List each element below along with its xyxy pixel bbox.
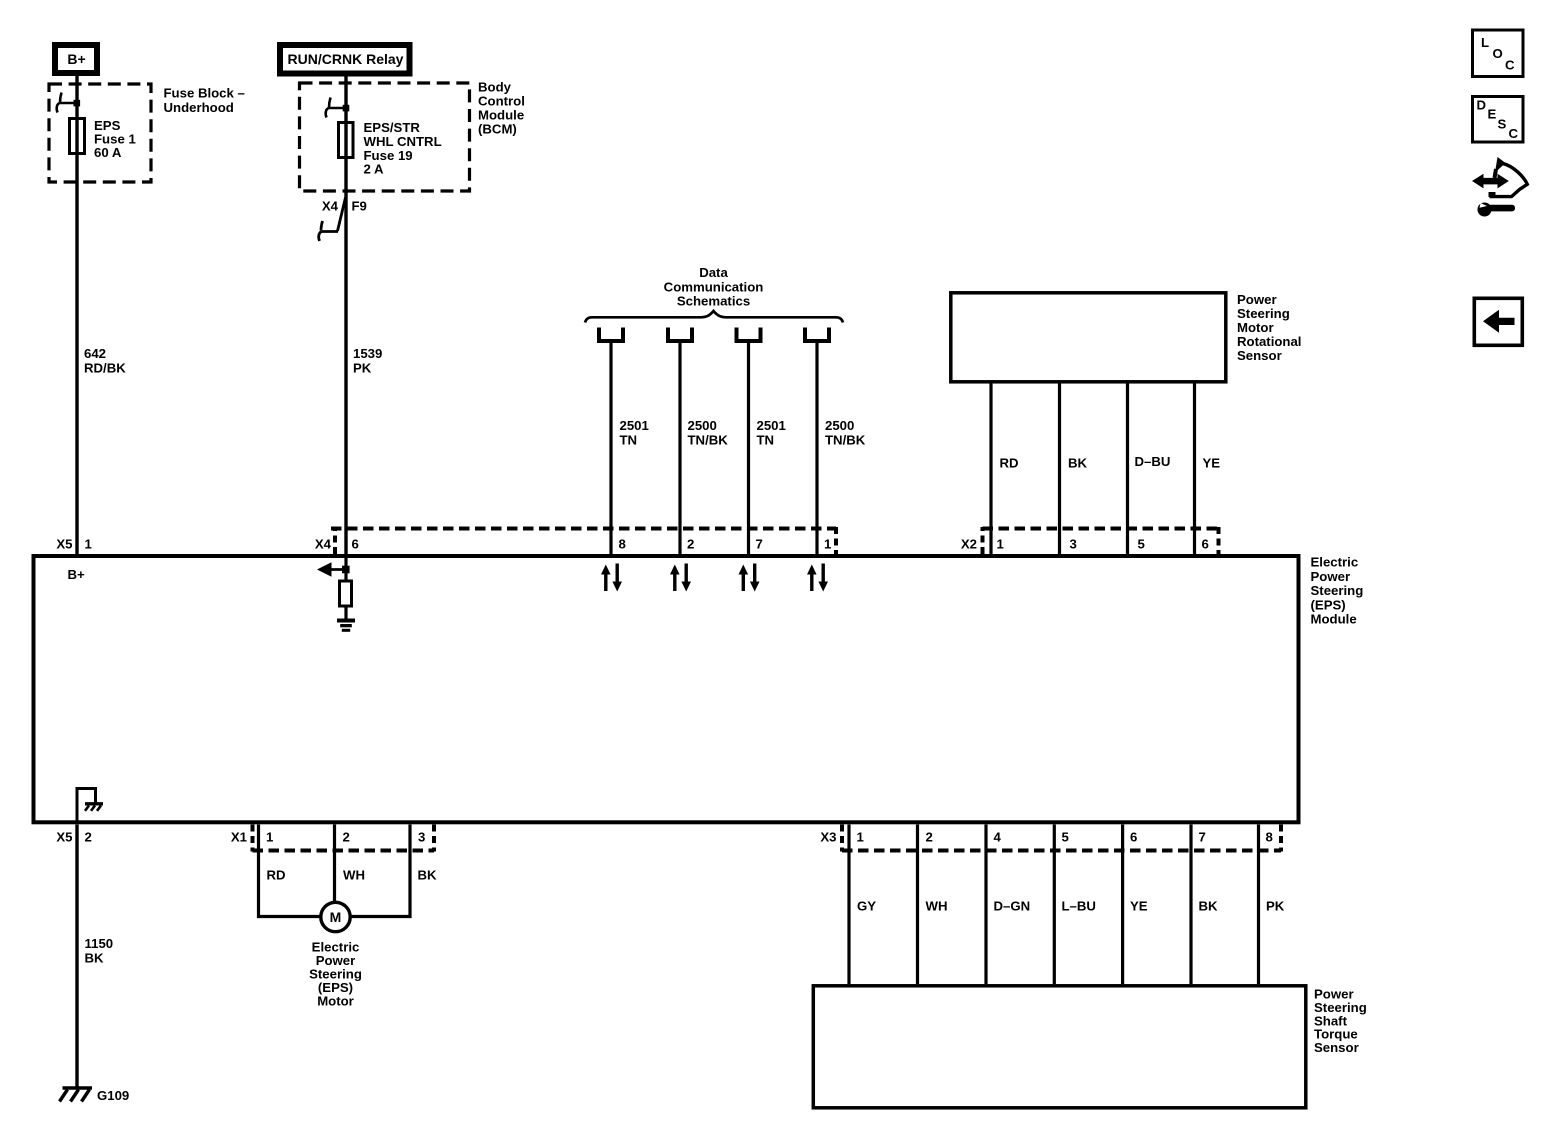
svg-text:BK: BK bbox=[85, 950, 105, 965]
svg-text:Sensor: Sensor bbox=[1314, 1040, 1359, 1055]
svg-text:BK: BK bbox=[418, 868, 438, 883]
wire resistor to ground bbox=[344, 606, 347, 619]
earth ground symbol inside module bbox=[337, 619, 355, 632]
fuse F1 EPS 60 A bbox=[70, 119, 85, 154]
connector X1 dashed bracket under EPS module bbox=[253, 825, 435, 852]
svg-text:1: 1 bbox=[824, 537, 831, 552]
connector label X4 / F9 bbox=[322, 199, 367, 214]
wire D-BU sensor to X2-5 bbox=[1126, 384, 1129, 555]
wire label 2501 TN bbox=[620, 418, 649, 447]
svg-text:(EPS): (EPS) bbox=[1311, 597, 1346, 612]
svg-text:Fuse Block –: Fuse Block – bbox=[164, 86, 245, 101]
icon DESC button bbox=[1473, 97, 1524, 143]
bus arrows below pin 2 bbox=[670, 564, 691, 592]
junction dot bbox=[342, 566, 350, 574]
chassis ground symbol inside module bbox=[85, 804, 103, 811]
svg-text:2 A: 2 A bbox=[364, 162, 385, 177]
icon quick-check (double arrow, outline arrow, screwdriver) bbox=[1472, 157, 1527, 217]
wire 642 RD/BK from B+ to EPS module pin X5-1 bbox=[75, 76, 78, 554]
connector X2 dashed bracket on EPS module bbox=[983, 527, 1219, 554]
svg-text:1: 1 bbox=[266, 830, 273, 845]
wire 1539 PK from RUN/CRNK Relay to EPS module pin X4-6 bbox=[344, 76, 347, 554]
svg-text:PK: PK bbox=[353, 361, 372, 376]
svg-text:O: O bbox=[1493, 46, 1503, 61]
svg-text:S: S bbox=[1498, 117, 1507, 132]
svg-text:2501: 2501 bbox=[620, 418, 649, 433]
label Data Communication Schematics bbox=[664, 265, 764, 309]
icon back arrow button bbox=[1474, 298, 1522, 345]
svg-text:C: C bbox=[1505, 58, 1515, 73]
svg-text:4: 4 bbox=[994, 830, 1002, 845]
power node B+ bbox=[55, 45, 97, 73]
svg-text:Power: Power bbox=[1311, 569, 1351, 584]
fuse F1 value label bbox=[94, 118, 136, 160]
wire label 1539 PK bbox=[353, 346, 382, 376]
svg-text:6: 6 bbox=[1202, 537, 1209, 552]
svg-text:X3: X3 bbox=[820, 830, 836, 845]
svg-text:TN: TN bbox=[757, 432, 775, 447]
wire 2501 TN to pin X4-7 bbox=[747, 343, 750, 554]
junction dot at fuse block terminal bbox=[74, 100, 81, 107]
fuse F19 EPS/STR WHL CNTRL 2 A bbox=[339, 123, 354, 158]
label Power Steering Motor Rotational Sensor bbox=[1237, 292, 1301, 363]
wire 1150 BK from pin X5-2 to G109 bbox=[75, 825, 78, 1087]
svg-text:RUN/CRNK Relay: RUN/CRNK Relay bbox=[288, 51, 404, 67]
svg-text:Steering: Steering bbox=[1237, 306, 1290, 321]
svg-text:Module: Module bbox=[478, 108, 524, 123]
svg-text:5: 5 bbox=[1138, 537, 1145, 552]
icon LOC button bbox=[1473, 30, 1524, 77]
svg-text:Underhood: Underhood bbox=[164, 100, 234, 115]
label Electric Power Steering (EPS) Motor bbox=[309, 940, 362, 1009]
wire 2501 TN to pin X4-8 bbox=[609, 343, 612, 554]
svg-text:RD: RD bbox=[1000, 456, 1019, 471]
connector X4 dashed bracket on EPS module bbox=[331, 527, 836, 554]
svg-text:D–GN: D–GN bbox=[994, 899, 1031, 914]
wire YE sensor to X2-6 bbox=[1193, 384, 1196, 555]
junction dot at BCM terminal bbox=[343, 105, 350, 112]
svg-text:F9: F9 bbox=[352, 199, 367, 214]
resistor (coil suppression) inside module bbox=[340, 581, 352, 606]
svg-text:Sensor: Sensor bbox=[1237, 348, 1282, 363]
label Body Control Module (BCM) bbox=[478, 80, 525, 137]
svg-text:Power: Power bbox=[1237, 292, 1277, 307]
svg-text:Module: Module bbox=[1311, 612, 1357, 627]
svg-text:WH: WH bbox=[926, 899, 948, 914]
svg-text:Body: Body bbox=[478, 80, 512, 95]
wire RD sensor to X2-1 bbox=[989, 384, 992, 555]
svg-text:642: 642 bbox=[84, 346, 106, 361]
sensor box Power Steering Shaft Torque Sensor bbox=[813, 986, 1306, 1108]
svg-text:TN/BK: TN/BK bbox=[688, 432, 729, 447]
svg-text:RD/BK: RD/BK bbox=[84, 361, 126, 376]
svg-text:1150: 1150 bbox=[85, 936, 114, 951]
svg-text:GY: GY bbox=[857, 899, 876, 914]
module box Electric Power Steering (EPS) Module bbox=[34, 556, 1299, 822]
svg-text:WHL CNTRL: WHL CNTRL bbox=[364, 134, 442, 149]
wire BK from X1-3 to motor bbox=[350, 825, 411, 917]
svg-text:D: D bbox=[1477, 98, 1487, 113]
svg-text:M: M bbox=[330, 909, 342, 925]
wire WH X3-2 to torque sensor bbox=[916, 825, 919, 985]
bus arrows below pin 1 bbox=[807, 564, 828, 592]
svg-text:2500: 2500 bbox=[825, 418, 854, 433]
svg-text:X5: X5 bbox=[56, 830, 72, 845]
svg-text:1: 1 bbox=[997, 537, 1004, 552]
wire YE X3-6 to torque sensor bbox=[1121, 825, 1124, 985]
internal wire from pin X4-6 to resistor bbox=[344, 554, 347, 581]
wire PK X3-8 to torque sensor bbox=[1257, 825, 1260, 985]
off-page connector for wire 2500 TN/BK pin 2 bbox=[668, 328, 692, 342]
wire BK sensor to X2-3 bbox=[1058, 384, 1061, 555]
wire L-BU X3-5 to torque sensor bbox=[1053, 825, 1056, 985]
ground G109 bbox=[60, 1088, 93, 1102]
svg-text:Motor: Motor bbox=[317, 994, 354, 1009]
wire label 1150 BK bbox=[85, 936, 114, 965]
wire D-GN X3-4 to torque sensor bbox=[984, 825, 987, 985]
svg-text:RD: RD bbox=[267, 868, 286, 883]
wire label 2500 TN/BK bbox=[825, 418, 866, 447]
wire 2500 TN/BK to pin X4-1 bbox=[815, 343, 818, 554]
wire RD from X1-1 to motor bbox=[259, 825, 322, 917]
bus arrows below pin 7 bbox=[739, 564, 760, 592]
connector X3 dashed bracket under EPS module bbox=[842, 825, 1281, 852]
wire 2500 TN/BK to pin X4-2 bbox=[678, 343, 681, 554]
svg-text:Control: Control bbox=[478, 94, 525, 109]
bus arrows below pin 8 bbox=[601, 564, 622, 592]
wire label 642 RD/BK bbox=[84, 346, 126, 376]
in-line connector jog and terminal hook below X4/F9 bbox=[319, 198, 346, 242]
svg-text:B+: B+ bbox=[67, 51, 85, 67]
svg-text:2: 2 bbox=[687, 537, 694, 552]
svg-text:PK: PK bbox=[1266, 899, 1285, 914]
svg-text:60 A: 60 A bbox=[94, 145, 122, 160]
sensor box Power Steering Motor Rotational Sensor bbox=[951, 293, 1226, 382]
BCM dashed outline bbox=[300, 83, 470, 191]
wire GY X3-1 to torque sensor bbox=[847, 825, 850, 985]
svg-text:BK: BK bbox=[1068, 456, 1088, 471]
svg-text:Data: Data bbox=[699, 265, 728, 280]
svg-text:3: 3 bbox=[1070, 537, 1077, 552]
svg-text:(BCM): (BCM) bbox=[478, 122, 517, 137]
svg-text:BK: BK bbox=[1199, 899, 1219, 914]
label Fuse Block - Underhood bbox=[164, 86, 245, 116]
terminal hook in fuse block bbox=[57, 93, 77, 113]
svg-text:YE: YE bbox=[1130, 899, 1148, 914]
fuse block underhood dashed outline bbox=[49, 84, 151, 182]
svg-text:G109: G109 bbox=[97, 1088, 129, 1103]
brace over data wires bbox=[585, 311, 843, 323]
svg-text:L–BU: L–BU bbox=[1062, 899, 1096, 914]
wire label 2500 TN/BK bbox=[688, 418, 729, 447]
svg-text:8: 8 bbox=[1266, 830, 1273, 845]
svg-text:Rotational: Rotational bbox=[1237, 334, 1301, 349]
svg-text:WH: WH bbox=[343, 868, 365, 883]
svg-text:1539: 1539 bbox=[353, 346, 382, 361]
svg-text:TN: TN bbox=[620, 432, 638, 447]
svg-text:X4: X4 bbox=[322, 199, 339, 214]
svg-text:6: 6 bbox=[1130, 830, 1137, 845]
internal arrow to module logic bbox=[330, 568, 347, 571]
svg-text:D–BU: D–BU bbox=[1135, 454, 1171, 469]
svg-text:X5: X5 bbox=[56, 537, 72, 552]
svg-text:X1: X1 bbox=[231, 830, 247, 845]
svg-text:8: 8 bbox=[619, 537, 626, 552]
fuse F19 value label bbox=[364, 120, 442, 177]
svg-text:TN/BK: TN/BK bbox=[825, 432, 866, 447]
svg-text:7: 7 bbox=[756, 537, 763, 552]
svg-text:3: 3 bbox=[418, 830, 425, 845]
wire BK X3-7 to torque sensor bbox=[1189, 825, 1192, 985]
svg-text:6: 6 bbox=[352, 537, 359, 552]
svg-text:2: 2 bbox=[85, 830, 92, 845]
svg-text:E: E bbox=[1488, 107, 1497, 122]
svg-text:X2: X2 bbox=[961, 537, 977, 552]
svg-text:YE: YE bbox=[1203, 456, 1221, 471]
terminal hook in BCM bbox=[326, 98, 346, 118]
svg-text:7: 7 bbox=[1199, 830, 1206, 845]
svg-text:Communication: Communication bbox=[664, 279, 764, 294]
svg-text:EPS/STR: EPS/STR bbox=[364, 120, 421, 135]
wire label 2501 TN bbox=[757, 418, 786, 447]
off-page connector for wire 2501 TN pin 8 bbox=[599, 328, 623, 342]
motor Electric Power Steering (EPS) Motor bbox=[321, 902, 350, 931]
svg-text:1: 1 bbox=[857, 830, 864, 845]
off-page connector for wire 2501 TN pin 7 bbox=[737, 328, 761, 342]
svg-text:L: L bbox=[1481, 35, 1489, 50]
svg-text:1: 1 bbox=[85, 537, 92, 552]
internal ground trace at pin X5-2 bbox=[77, 789, 96, 821]
svg-text:B+: B+ bbox=[68, 567, 86, 582]
wire WH from X1-2 to motor bbox=[333, 825, 336, 904]
svg-text:X4: X4 bbox=[315, 537, 332, 552]
svg-text:2500: 2500 bbox=[688, 418, 717, 433]
svg-text:Electric: Electric bbox=[1311, 555, 1359, 570]
off-page connector for wire 2500 TN/BK pin 1 bbox=[805, 328, 829, 342]
svg-text:Steering: Steering bbox=[1311, 583, 1364, 598]
svg-text:Schematics: Schematics bbox=[677, 294, 750, 309]
svg-text:5: 5 bbox=[1062, 830, 1069, 845]
svg-text:C: C bbox=[1509, 126, 1519, 141]
label Electric Power Steering (EPS) Module bbox=[1311, 555, 1364, 627]
svg-text:2: 2 bbox=[926, 830, 933, 845]
svg-text:2: 2 bbox=[343, 830, 350, 845]
label Power Steering Shaft Torque Sensor bbox=[1314, 987, 1367, 1056]
power node RUN/CRNK Relay bbox=[280, 45, 410, 74]
svg-text:2501: 2501 bbox=[757, 418, 786, 433]
svg-text:Motor: Motor bbox=[1237, 320, 1274, 335]
